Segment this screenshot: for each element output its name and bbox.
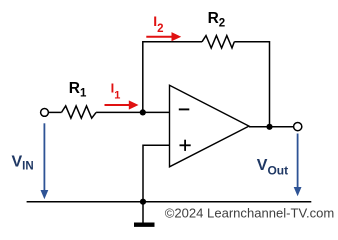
svg-text:I1: I1 — [111, 81, 121, 102]
svg-text:R2: R2 — [208, 10, 226, 30]
svg-text:VIN: VIN — [12, 153, 34, 172]
svg-text:©2024 Learnchannel-TV.com: ©2024 Learnchannel-TV.com — [165, 206, 335, 221]
svg-text:R1: R1 — [69, 80, 87, 100]
svg-text:VOut: VOut — [257, 157, 288, 177]
svg-text:I2: I2 — [153, 13, 163, 35]
